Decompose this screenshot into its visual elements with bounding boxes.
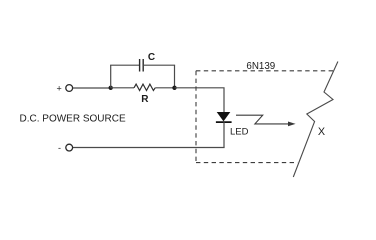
svg-text:X: X [318, 126, 325, 138]
terminal - [66, 144, 73, 151]
wire RC box right vertical [174, 65, 176, 88]
arrow light emission from LED [236, 115, 296, 126]
terminal + [66, 85, 73, 92]
svg-text:R: R [141, 94, 149, 105]
wire from node A to resistor [111, 87, 134, 89]
svg-text:+: + [57, 84, 62, 94]
wire capacitor branch right [143, 64, 175, 66]
svg-text:-: - [58, 143, 61, 153]
wire bottom rail to - terminal [73, 147, 225, 149]
wire from resistor to node B [155, 87, 174, 89]
svg-text:C: C [148, 52, 155, 63]
node B junction dot [172, 86, 176, 90]
wire RC box left vertical [110, 65, 112, 88]
capacitor C [140, 59, 144, 72]
node A junction dot [109, 86, 113, 90]
wire top rail from node B to LED anode corner [175, 88, 225, 112]
wire capacitor branch left [110, 64, 140, 66]
dashed enclosure of 6N139 package [196, 71, 334, 163]
svg-text:D.C. POWER SOURCE: D.C. POWER SOURCE [20, 114, 126, 125]
svg-text:LED: LED [230, 126, 249, 137]
svg-text:6N139: 6N139 [246, 61, 275, 72]
torn edge zigzag (circuit continues) [293, 62, 338, 178]
resistor R [134, 84, 155, 90]
wire LED cathode vertical [223, 122, 225, 147]
LED (light emitting diode) [216, 112, 232, 122]
wire top rail from + terminal to node A [73, 87, 111, 89]
